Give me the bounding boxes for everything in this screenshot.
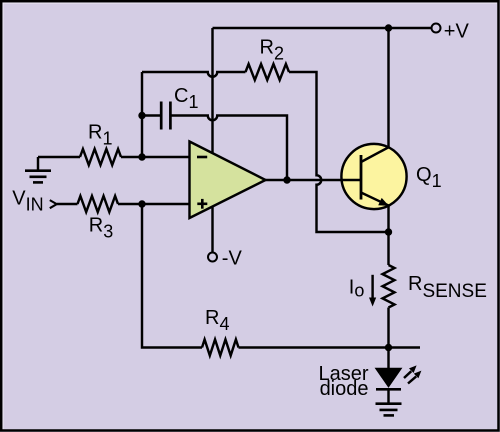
- ground laser diode cathode: [376, 389, 402, 415]
- wire emitter down: [387, 206, 389, 233]
- wire emitter node to RSENSE: [387, 232, 389, 265]
- wire VIN to R3: [57, 203, 78, 205]
- node emitter junction: [385, 228, 392, 235]
- resistor R3: [78, 196, 119, 242]
- op-amp U1: [190, 142, 266, 219]
- terminal +V: [432, 21, 470, 43]
- wire op-amp positive supply: [211, 28, 213, 153]
- wire R2 feedback left segment (hops over supply wire): [142, 72, 246, 77]
- terminal -V: [208, 248, 242, 270]
- light emission arrows: [404, 365, 421, 383]
- wire op-amp negative supply: [211, 207, 213, 253]
- node C1 left junction: [138, 112, 145, 119]
- wire left vertical feedback bus: [141, 72, 143, 157]
- node collector junction on +V rail: [385, 24, 392, 31]
- wire collector to +V rail: [387, 28, 389, 147]
- wire RSENSE to laser diode node: [387, 308, 389, 348]
- capacitor C1: [161, 85, 198, 130]
- svg-text:-V: -V: [222, 248, 243, 270]
- resistor RSENSE: [383, 265, 487, 308]
- resistor R4: [202, 307, 239, 356]
- wire R1 to inverting input: [121, 156, 190, 158]
- node VIN terminal arrow: [12, 188, 56, 215]
- wire R4 branch from noninverting node: [142, 204, 202, 348]
- wire C1 left lead: [142, 114, 160, 116]
- resistor R2: [246, 37, 290, 81]
- wire R2 right segment down to emitter node (hops over base wire): [289, 72, 389, 232]
- wire op-amp output to base: [266, 179, 362, 181]
- wire top +V rail: [213, 27, 432, 29]
- node inverting input junction: [138, 153, 145, 160]
- wire C1 right lead to output node (hops over supply wire): [172, 116, 288, 181]
- node output junction: [283, 176, 290, 183]
- svg-text:+V: +V: [444, 21, 470, 43]
- laser diode D1: [318, 363, 401, 400]
- wire ground to R1: [38, 156, 80, 158]
- transistor Q1: [341, 144, 442, 209]
- node laser diode junction: [385, 344, 392, 351]
- wire R3 to noninverting input: [118, 203, 190, 205]
- wire anode lead: [387, 348, 389, 369]
- svg-text:diode: diode: [320, 378, 369, 400]
- wire R4 to laser diode node: [239, 346, 421, 348]
- ground (inverting input side): [25, 157, 51, 182]
- svg-text:Io: Io: [349, 276, 365, 300]
- node noninverting input junction: [138, 200, 145, 207]
- label Io with current arrow: [349, 275, 376, 307]
- resistor R1: [80, 122, 121, 166]
